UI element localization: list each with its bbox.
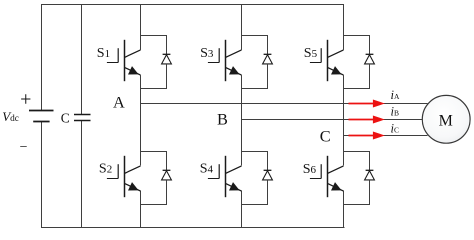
svg-text:M: M — [439, 113, 453, 130]
svg-text:S6: S6 — [303, 162, 317, 177]
svg-text:−: − — [20, 140, 28, 155]
svg-text:C: C — [320, 127, 331, 146]
svg-text:S3: S3 — [200, 46, 214, 61]
svg-text:S1: S1 — [97, 46, 110, 61]
svg-text:B: B — [217, 109, 228, 128]
svg-text:S4: S4 — [200, 162, 214, 177]
svg-text:A: A — [113, 93, 125, 112]
svg-text:S2: S2 — [99, 162, 112, 177]
svg-text:S5: S5 — [304, 46, 318, 61]
svg-text:+: + — [20, 88, 31, 110]
svg-text:C: C — [61, 110, 70, 125]
